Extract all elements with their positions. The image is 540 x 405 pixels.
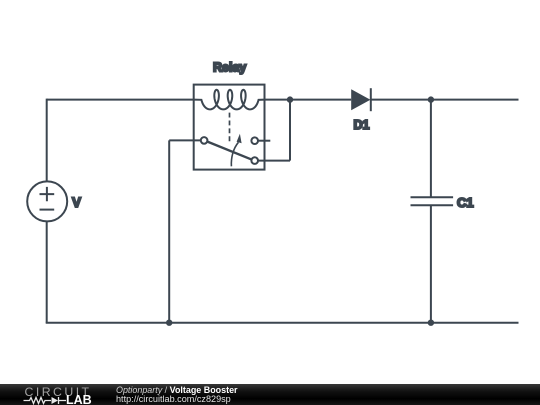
junction dot relay-top	[287, 96, 293, 102]
wire capacitor lower	[430, 205, 432, 322]
footer credit line 1	[116, 385, 238, 395]
voltage source V	[27, 181, 67, 221]
wire NC stub	[258, 140, 270, 142]
relay dashed actuation line	[229, 113, 231, 144]
wire left branch vertical	[168, 140, 170, 322]
wire common lead left	[169, 139, 201, 141]
wire left vertical (bottom)	[46, 221, 48, 322]
relay NO terminal	[251, 157, 258, 164]
svg-text:Relay: Relay	[213, 61, 246, 75]
svg-text:C1: C1	[457, 195, 474, 210]
relay coil	[194, 90, 265, 110]
wire bottom rail	[46, 322, 519, 324]
svg-text:D1: D1	[354, 118, 370, 132]
CircuitLab logo	[0, 378, 100, 405]
wire top mid horizontal	[265, 99, 352, 101]
svg-text:LAB: LAB	[66, 393, 92, 405]
wire capacitor upper	[430, 100, 432, 198]
junction dot cap-bottom	[428, 320, 434, 326]
relay actuation arrow	[231, 134, 241, 167]
wire NO lead right	[258, 160, 290, 162]
svg-text:V: V	[72, 195, 81, 210]
wire left vertical (top)	[46, 99, 48, 182]
junction dot left-bottom	[166, 320, 172, 326]
relay box	[194, 85, 265, 170]
relay NC terminal	[251, 137, 258, 144]
capacitor C1	[411, 197, 454, 205]
junction dot cap-top	[428, 96, 434, 102]
footer credit line 2	[116, 394, 231, 404]
wire top right horizontal	[371, 99, 519, 101]
diode D1	[351, 88, 371, 111]
relay switch blade	[207, 141, 252, 159]
relay common terminal	[201, 137, 208, 144]
footer bar	[0, 384, 540, 405]
wire top-left horizontal	[47, 99, 194, 101]
wire NO riser	[289, 100, 291, 161]
